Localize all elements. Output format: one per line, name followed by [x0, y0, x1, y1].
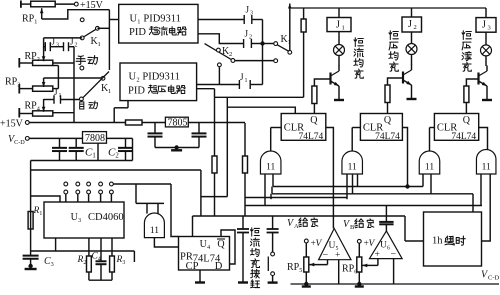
svg-text:J: J	[245, 29, 249, 39]
svg-text:J: J	[70, 37, 74, 47]
svg-text:PID: PID	[128, 86, 145, 97]
svg-text:U₄: U₄	[200, 239, 211, 250]
svg-text:U₅: U₅	[329, 241, 339, 251]
svg-text:U₆: U₆	[380, 241, 390, 251]
svg-text:J: J	[408, 19, 412, 30]
svg-text:J: J	[336, 20, 340, 31]
svg-text:U₂ PID9311: U₂ PID9311	[129, 72, 180, 83]
svg-text:11: 11	[150, 226, 159, 236]
svg-text:11: 11	[348, 163, 357, 173]
svg-text:2: 2	[75, 43, 78, 49]
svg-text:J: J	[240, 72, 244, 82]
svg-text:−: −	[391, 249, 397, 260]
svg-text:3: 3	[488, 25, 491, 32]
svg-text:J: J	[52, 37, 56, 47]
svg-text:J: J	[246, 5, 250, 15]
svg-text:+: +	[375, 250, 380, 260]
svg-text:D: D	[215, 261, 223, 272]
svg-text:7805: 7805	[168, 117, 188, 128]
svg-text:−: −	[323, 250, 329, 261]
svg-text:1: 1	[98, 41, 101, 48]
svg-text:1: 1	[342, 25, 345, 32]
svg-text:U₃: U₃	[71, 212, 82, 223]
svg-text:2: 2	[414, 24, 417, 31]
svg-text:Q: Q	[463, 115, 471, 126]
svg-text:J: J	[482, 20, 486, 31]
svg-text:1: 1	[245, 78, 248, 84]
svg-text:B: B	[350, 224, 355, 231]
svg-text:+: +	[335, 251, 340, 261]
svg-text:A: A	[294, 223, 299, 230]
svg-text:CP: CP	[186, 261, 199, 272]
svg-text:2: 2	[249, 35, 252, 41]
svg-text:74L74: 74L74	[375, 132, 400, 142]
svg-text:CD4060: CD4060	[88, 212, 124, 223]
svg-text:Q: Q	[217, 239, 225, 250]
svg-text:Q: Q	[310, 115, 318, 126]
svg-text:U₁ PID9311: U₁ PID9311	[130, 14, 181, 25]
svg-text:1h: 1h	[432, 236, 443, 247]
svg-text:11: 11	[266, 163, 275, 173]
svg-text:11: 11	[425, 163, 434, 173]
svg-text:1: 1	[108, 88, 111, 95]
svg-text:Q: Q	[384, 115, 392, 126]
svg-text:3: 3	[56, 43, 59, 49]
svg-text:+15V: +15V	[0, 119, 24, 130]
svg-text:C-D: C-D	[488, 275, 500, 282]
svg-text:11: 11	[482, 163, 491, 173]
svg-text:2: 2	[229, 51, 232, 58]
svg-text:7808: 7808	[85, 133, 105, 144]
svg-text:74L74: 74L74	[298, 132, 323, 142]
svg-text:3: 3	[250, 11, 253, 17]
svg-text:PID: PID	[129, 27, 146, 38]
svg-text:74L74: 74L74	[451, 132, 476, 142]
